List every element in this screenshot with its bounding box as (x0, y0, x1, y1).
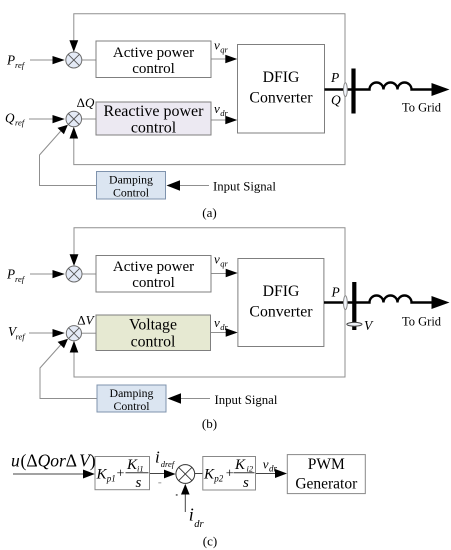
svg-text:(b): (b) (202, 416, 217, 431)
svg-text:dr: dr (220, 322, 228, 332)
svg-text:Generator: Generator (295, 476, 358, 493)
svg-text:Voltage: Voltage (129, 317, 177, 334)
svg-text:i: i (189, 504, 194, 524)
svg-text:i2: i2 (247, 463, 254, 473)
svg-text:Control: Control (113, 399, 150, 413)
svg-text:v: v (214, 252, 220, 267)
svg-text:PWM: PWM (308, 456, 345, 473)
svg-text:K: K (234, 457, 246, 473)
svg-text:To Grid: To Grid (402, 101, 442, 115)
svg-text:v: v (214, 101, 220, 116)
svg-text:qr: qr (220, 45, 228, 55)
svg-text:Damping: Damping (109, 173, 153, 187)
svg-text:s: s (243, 475, 249, 491)
svg-text:dref: dref (161, 459, 176, 469)
svg-text:qr: qr (220, 259, 228, 269)
svg-text:dr: dr (220, 108, 228, 118)
svg-text:P: P (331, 285, 340, 300)
svg-text:v: v (214, 38, 220, 53)
svg-text:Converter: Converter (249, 90, 313, 107)
svg-text:P: P (6, 266, 15, 281)
svg-text:s: s (136, 475, 142, 491)
svg-text:ΔQ: ΔQ (77, 95, 95, 110)
svg-text:p2: p2 (213, 473, 224, 483)
svg-text:Input Signal: Input Signal (213, 180, 276, 194)
svg-text:v: v (214, 315, 220, 330)
svg-text:To Grid: To Grid (402, 315, 442, 329)
svg-text:P: P (330, 70, 339, 85)
svg-text:dr: dr (194, 519, 204, 530)
svg-text:ΔV: ΔV (77, 313, 95, 328)
svg-text:Q: Q (5, 110, 15, 125)
svg-text:Control: Control (113, 186, 150, 200)
svg-text:Damping: Damping (110, 386, 154, 400)
svg-text:K: K (203, 466, 215, 482)
svg-text:p1: p1 (106, 473, 116, 483)
svg-text:v: v (263, 457, 269, 472)
svg-text:+: + (117, 467, 125, 482)
svg-text:Active power: Active power (113, 259, 194, 275)
svg-text:dr: dr (269, 463, 278, 473)
svg-text:+: + (226, 467, 234, 482)
svg-text:Input Signal: Input Signal (215, 393, 278, 407)
svg-text:Reactive power: Reactive power (104, 103, 205, 120)
svg-text:(ΔQorΔV): (ΔQorΔV) (21, 451, 96, 471)
svg-text:(c): (c) (203, 534, 217, 549)
svg-text:u: u (11, 451, 20, 471)
svg-text:Converter: Converter (249, 304, 313, 321)
svg-text:DFIG: DFIG (263, 283, 300, 300)
svg-text:(a): (a) (202, 205, 216, 220)
svg-text:control: control (131, 334, 176, 351)
svg-text:control: control (131, 120, 177, 137)
svg-text:Active power: Active power (113, 45, 194, 61)
svg-text:i: i (155, 447, 160, 466)
svg-text:control: control (132, 275, 175, 291)
svg-text:control: control (132, 61, 175, 77)
svg-text:DFIG: DFIG (263, 69, 300, 86)
svg-text:Q: Q (331, 93, 341, 108)
svg-text:P: P (6, 52, 15, 67)
svg-text:K: K (96, 466, 108, 482)
svg-text:i1: i1 (137, 463, 144, 473)
